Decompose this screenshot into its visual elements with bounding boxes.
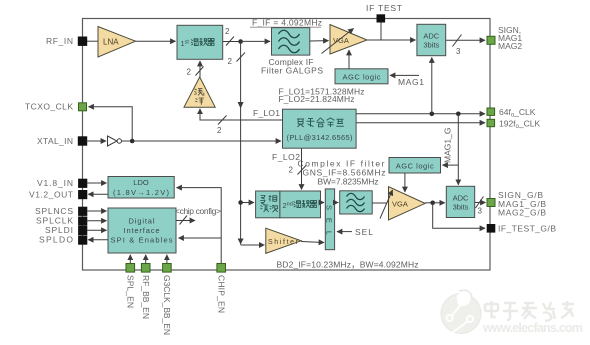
wire VGA2 to junction (425, 202, 433, 204)
net label SEL (337, 227, 373, 237)
svg-text:VGA: VGA (392, 200, 408, 209)
wire LDO to V1.2 (88, 193, 108, 195)
svg-text:LNA: LNA (103, 38, 119, 47)
wire F_LO1 from PLL to buffer (200, 109, 283, 120)
svg-text:3bits: 3bits (453, 203, 469, 212)
hanzi 混频器 (191, 38, 214, 46)
label Complex IF filter (lower) (298, 159, 386, 187)
wire V1.8 to LDO (87, 182, 107, 184)
wire ADC2 to pin (475, 202, 486, 204)
LDO box (108, 177, 174, 199)
svg-text:AGC logic: AGC logic (396, 162, 434, 171)
hanzi 缓冲 vertical (194, 89, 204, 105)
wire VGA1 to ADC1 (367, 39, 416, 41)
bus slash 2 on F_LO2 (298, 166, 307, 175)
wire CHIP_EN riser (177, 188, 222, 264)
svg-text:BD2_IF=10.23MHz，BW=4.092MHz: BD2_IF=10.23MHz，BW=4.092MHz (277, 260, 419, 270)
svg-text:V1.8_IN: V1.8_IN (37, 178, 73, 188)
svg-text:TCXO_CLK: TCXO_CLK (25, 102, 73, 112)
svg-text:<chip config>: <chip config> (175, 206, 221, 216)
wire mixer to junction (223, 41, 241, 43)
PLL frequency synthesizer box (283, 109, 357, 148)
wire AGC1 to VGA1 (348, 50, 350, 69)
wire SPLDO out (88, 239, 108, 241)
node adc1 clk (430, 112, 435, 117)
svg-text:F_IF = 4.092MHz: F_IF = 4.092MHz (252, 18, 322, 28)
svg-text:VGA: VGA (333, 36, 349, 45)
label Complex IF Filter GALGPS (261, 57, 323, 76)
svg-text:(PLL@3142.6565): (PLL@3142.6565) (287, 133, 354, 142)
1st mixer box (177, 25, 223, 59)
pin G3CLK_BB_EN (162, 264, 172, 336)
wire SPLCLK in (87, 220, 107, 222)
svg-text:SEL: SEL (325, 205, 334, 235)
polyphase filter box (256, 191, 280, 218)
wire RF_IN to LNA (86, 40, 98, 42)
wire clk to ADC1 (431, 58, 433, 114)
label F_IF = 4.092MHz (250, 18, 322, 28)
svg-text:64fo_CLK: 64fo_CLK (499, 107, 536, 119)
svg-text:Digital: Digital (129, 217, 155, 226)
pin TCXO_CLK (25, 102, 87, 112)
wire LNA to 1st mixer (136, 40, 176, 42)
watermark logo (441, 290, 481, 333)
wire to polyphase filter (241, 202, 254, 204)
net stub MAG1 (390, 75, 424, 87)
svg-text:MAG1_G: MAG1_G (443, 128, 453, 163)
svg-text:(1.8V→1.2V): (1.8V→1.2V) (113, 188, 170, 197)
xtal inverter (108, 136, 122, 146)
svg-text:3: 3 (478, 207, 483, 216)
svg-text:192fo_CLK: 192fo_CLK (499, 118, 540, 130)
VGA U2 (330, 25, 367, 55)
svg-text:BW=7.8235MHz: BW=7.8235MHz (318, 177, 379, 187)
Digital Interface box (108, 208, 176, 253)
complex IF filter GAL/GPS box (272, 28, 310, 55)
watermark hanzi 电子发烧友 (485, 301, 574, 321)
svg-text:3bits: 3bits (423, 41, 439, 50)
svg-text:MAG2_G/B: MAG2_G/B (498, 207, 546, 217)
wire junction to complex filter (241, 40, 270, 42)
vertical IF bus from junction down (240, 42, 242, 245)
node polyphase branch (238, 200, 243, 205)
VGA U3 (389, 187, 426, 220)
node IF1 junction (238, 39, 243, 44)
svg-text:www.elecfans.com: www.elecfans.com (482, 321, 583, 335)
hanzi 频率合成器 (297, 118, 344, 127)
pin IF_TEST (366, 3, 402, 40)
pin XTAL_IN (37, 136, 87, 146)
node adc2 clk (456, 112, 461, 117)
svg-text:SPI & Enables: SPI & Enables (111, 236, 173, 245)
pin 64fo_CLK (487, 107, 536, 119)
wire filter2 to VGA2 (372, 202, 387, 204)
svg-text:SEL: SEL (355, 227, 373, 237)
svg-text:Filter GALGPS: Filter GALGPS (261, 66, 323, 76)
node xtal junction (130, 139, 135, 144)
svg-text:2: 2 (217, 126, 222, 135)
bus slash 2 on F_LO1 (218, 116, 227, 125)
wire mixer2 to mux (321, 202, 325, 204)
svg-text:LDO: LDO (133, 178, 149, 187)
wire junction to IF_TEST_G/B (433, 203, 485, 229)
svg-text:F_LO2: F_LO2 (272, 152, 300, 162)
svg-text:SPLDO: SPLDO (39, 235, 73, 245)
wire inverter to PLL (122, 140, 282, 142)
pin SPLDO (39, 235, 87, 245)
flow arrowhead to shifter corner (238, 239, 244, 245)
VGA1 gain arrow (322, 29, 354, 54)
node VGA2 out (430, 201, 435, 206)
pin RF_IN (46, 36, 87, 46)
svg-text:2: 2 (187, 68, 192, 77)
wire G3CLK_BB_EN up (166, 255, 168, 264)
svg-text:RF_IN: RF_IN (46, 36, 73, 46)
bus slash 3 (476, 197, 484, 209)
wire F_LO2 PLL to 2nd mixer (301, 148, 303, 189)
pin V1.2_OUT (29, 189, 87, 199)
buffer amp (vertical) (184, 77, 215, 107)
svg-text:MAG1: MAG1 (398, 77, 424, 87)
svg-text:SPL_EN: SPL_EN (126, 275, 136, 308)
pin IF_TEST_G/B (487, 224, 556, 234)
wire PLL to 192fo_CLK (356, 122, 485, 124)
IF mux tall box (325, 189, 335, 250)
svg-text:Interface: Interface (124, 226, 160, 235)
bus slash 2 buffer out (196, 67, 204, 76)
pin RF_BB_EN (141, 264, 151, 320)
wire CHIP_EN to digital (179, 237, 222, 239)
wire filter1 to VGA1 (310, 40, 329, 42)
wire SPLNCS in (87, 210, 107, 212)
hanzi 混频器 (294, 200, 317, 208)
svg-text:MAG2: MAG2 (498, 41, 522, 51)
wire PLL to 64fo_CLK (356, 113, 485, 115)
pin SPLNCS (35, 206, 87, 216)
bus slash 2 on vertical (237, 53, 246, 62)
pin V1.8_IN (37, 178, 87, 188)
svg-text:F_LO1: F_LO1 (253, 108, 280, 118)
pin 192fo_CLK (487, 118, 540, 130)
AGC logic 2 box (389, 158, 441, 174)
pin SPLCLK (36, 216, 87, 226)
Shifter amp (266, 228, 301, 253)
wire SPL_EN up (129, 255, 131, 264)
complex IF filter 2 box (340, 191, 373, 214)
2nd mixer box (280, 191, 321, 218)
svg-text:IF TEST: IF TEST (366, 3, 402, 13)
svg-text:3: 3 (456, 47, 461, 56)
svg-text:G3CLK_BB_EN: G3CLK_BB_EN (162, 275, 172, 335)
wire AGC2 to VGA2 (404, 173, 406, 192)
svg-text:RF_BB_EN: RF_BB_EN (141, 275, 151, 319)
wire corner to shifter (241, 244, 265, 246)
VGA2 gain arrow (380, 190, 393, 219)
pin SPL_EN (126, 264, 136, 309)
bus slash 2 after mixer (226, 37, 234, 46)
svg-text:2: 2 (228, 57, 233, 66)
wire shifter to mux (301, 242, 324, 243)
svg-text:ADC: ADC (453, 194, 469, 203)
svg-text:F_LO2=21.824MHz: F_LO2=21.824MHz (279, 94, 355, 104)
wire SPLDI in (87, 229, 107, 231)
svg-text:AGC logic: AGC logic (343, 73, 381, 82)
ADC2 box (446, 186, 474, 217)
svg-text:SPLNCS: SPLNCS (35, 206, 73, 216)
svg-text:2: 2 (225, 27, 230, 36)
pin SIGN_G/B MAG1_G/B MAG2_G/B (487, 190, 546, 217)
net chip config (175, 206, 221, 225)
net stub MAG1_G (443, 128, 459, 166)
LNA U1 (98, 27, 136, 58)
svg-text:SPLDI: SPLDI (45, 225, 73, 235)
svg-text:CHIP_EN: CHIP_EN (216, 275, 226, 313)
flow arrowhead on vertical bus (238, 102, 244, 109)
wire buffer to mixer LO (199, 61, 201, 77)
wire RF_BB_EN up (145, 255, 147, 264)
AGC logic 1 box (335, 69, 388, 84)
svg-text:2: 2 (289, 166, 294, 175)
svg-text:XTAL_IN: XTAL_IN (37, 136, 73, 146)
bus slash 3 (453, 35, 462, 47)
wire mux to filter2 (335, 202, 339, 204)
pin SPLDI (45, 225, 87, 235)
wire junction to ADC2 (433, 202, 445, 204)
svg-text:V1.2_OUT: V1.2_OUT (29, 189, 73, 199)
ADC1 box (417, 24, 446, 55)
pin SIGN MAG1 MAG2 (487, 25, 522, 51)
outer chip border (83, 19, 491, 271)
pin CHIP_EN (216, 264, 226, 314)
hanzi 多相 two lines (260, 195, 278, 212)
wire ADC1 to SIGN pin (446, 39, 485, 41)
svg-text:ADC: ADC (423, 32, 439, 41)
wire XTAL to inverter (86, 140, 106, 142)
wire TCXO feedback (89, 107, 133, 141)
wire clk to ADC2 (457, 114, 459, 185)
svg-text:IF_TEST_G/B: IF_TEST_G/B (498, 224, 556, 234)
